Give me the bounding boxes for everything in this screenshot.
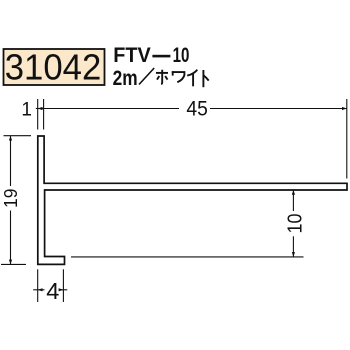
katakana wa — [172, 71, 185, 82]
arrow top of 19 — [9, 136, 12, 141]
svg-text:31042: 31042 — [5, 47, 102, 88]
extension line left of wall thickness — [37, 99, 39, 130]
katakana to — [203, 70, 208, 87]
svg-text:1: 1 — [21, 99, 32, 120]
arrow left of 4 — [38, 288, 43, 291]
svg-text:FTV: FTV — [113, 43, 151, 67]
part number box — [4, 49, 105, 85]
extension line right of 4 — [62, 269, 64, 302]
svg-text:10: 10 — [173, 43, 190, 67]
dimension line 4 right segment — [59, 289, 67, 291]
extension line right end of 45 — [346, 99, 348, 179]
extension line right of wall thickness — [43, 99, 45, 130]
svg-text:2m: 2m — [113, 67, 138, 90]
extension line top of 19 — [4, 135, 32, 137]
arrow at left end of 45 — [38, 107, 43, 110]
arrow bottom of 10 — [292, 252, 295, 257]
dimension line 4 left segment — [33, 289, 44, 291]
full-width slash — [139, 68, 154, 85]
arrow top of 10 — [292, 190, 295, 195]
dash of FTV-10 — [152, 55, 170, 58]
extension line bottom of 19 — [1, 263, 26, 265]
katakana i — [187, 70, 197, 87]
extension line left of 4 — [37, 269, 39, 302]
profile outline — [38, 136, 347, 264]
svg-text:45: 45 — [186, 96, 208, 120]
arrow right of 4 — [59, 288, 64, 291]
svg-text:4: 4 — [46, 278, 59, 304]
extension line for 10 from foot top — [71, 256, 304, 258]
katakana ho — [156, 70, 168, 84]
dimension line 1 / 45 — [36, 108, 179, 110]
dimension line 19 — [10, 136, 12, 186]
dimension line 10 — [292, 190, 294, 211]
arrow at right end of 45 — [342, 107, 347, 110]
arrow bottom of 19 — [9, 260, 12, 265]
svg-text:19: 19 — [0, 188, 21, 208]
svg-text:10: 10 — [284, 214, 306, 234]
